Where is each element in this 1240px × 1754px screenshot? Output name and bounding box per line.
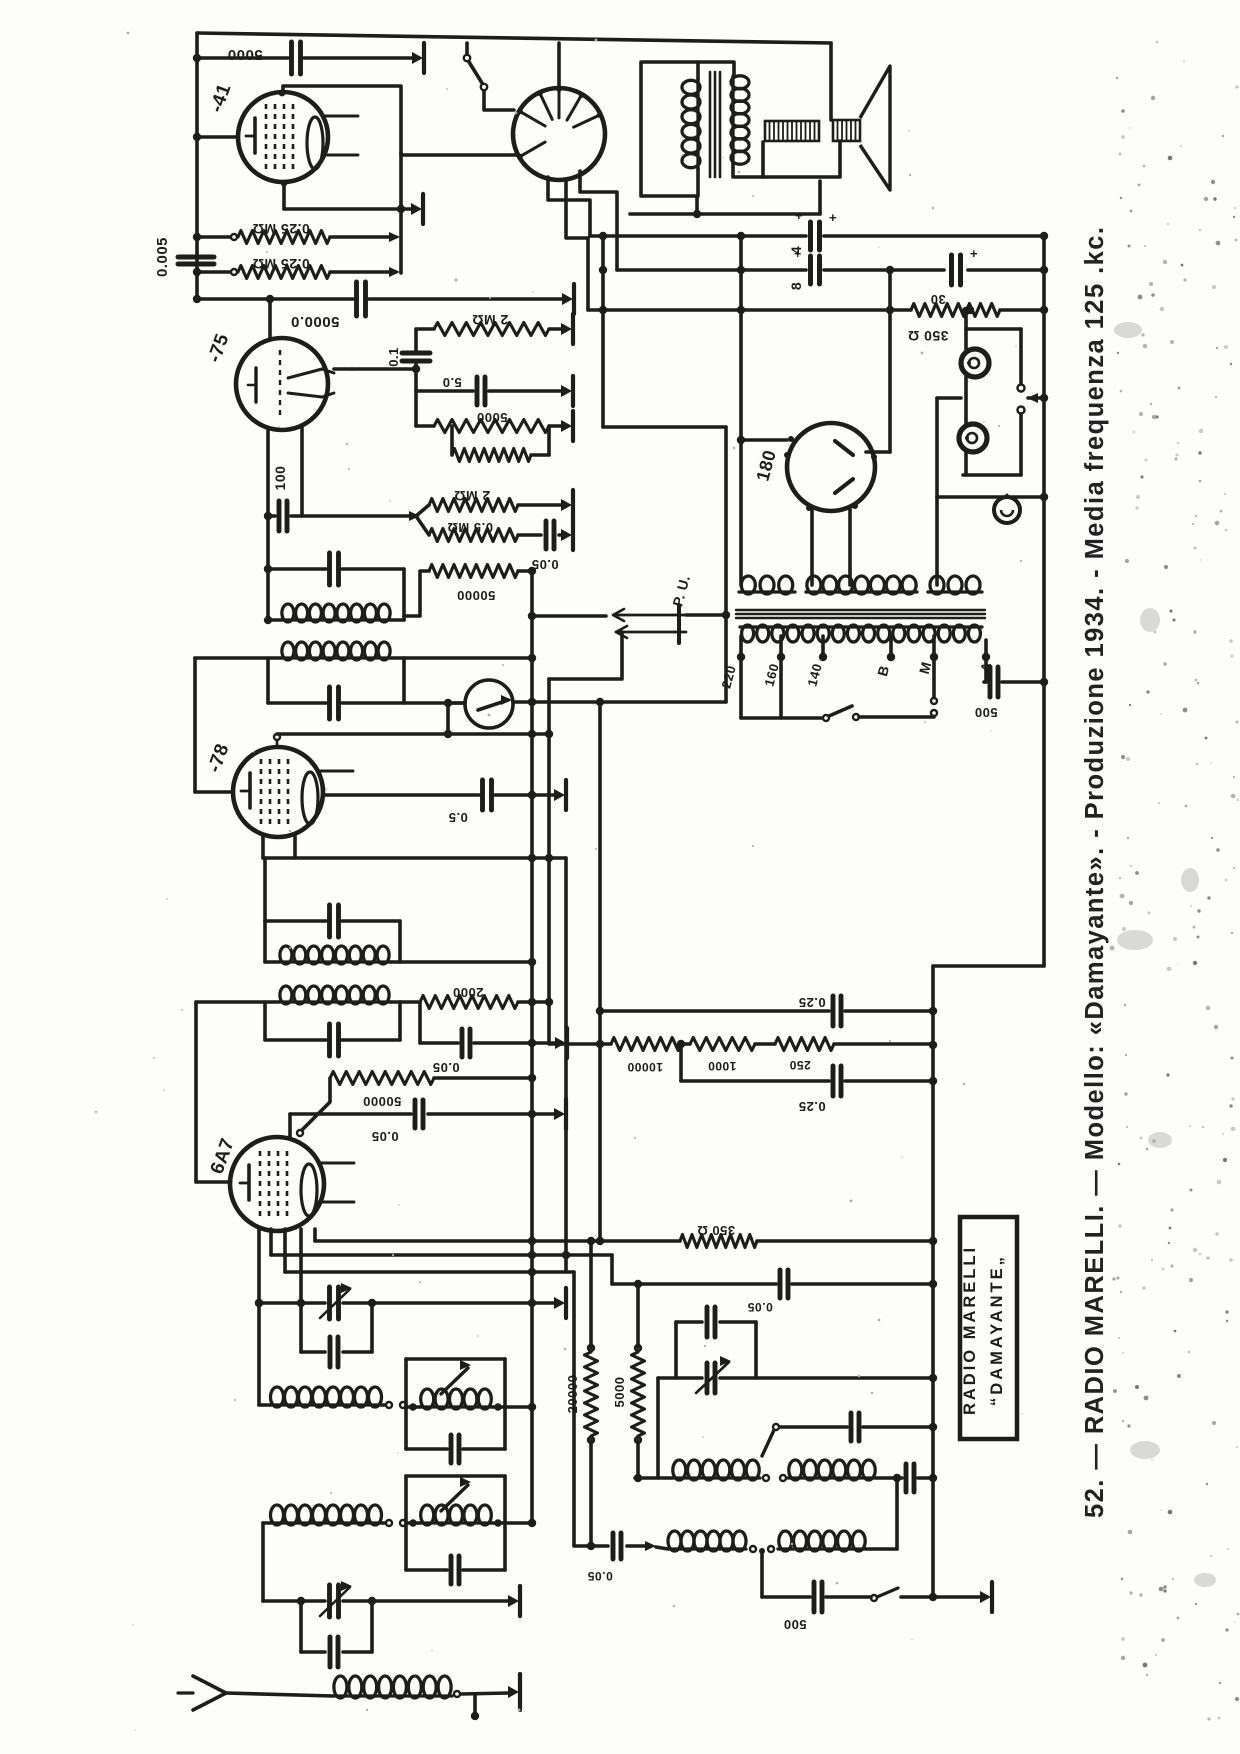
capacitor 500 osc line (762, 1595, 810, 1599)
svg-text:5000: 5000 (477, 410, 508, 425)
ground (0.05 a) (565, 1028, 569, 1058)
ground (coupling line) (422, 43, 426, 73)
svg-text:“DAMAYANTE„: “DAMAYANTE„ (988, 1254, 1006, 1406)
rectifier tube 180 (787, 423, 875, 511)
svg-text:-41: -41 (206, 81, 236, 115)
wire rect plate right (866, 450, 890, 454)
svg-text:RADIO MARELLI: RADIO MARELLI (961, 1245, 979, 1415)
osc bottom switch (871, 1595, 877, 1601)
ground (5.0) (571, 376, 575, 406)
svg-text:350 Ω: 350 Ω (908, 328, 949, 344)
wire 2M vertical (414, 329, 418, 352)
ground (2M avc) (571, 490, 575, 520)
wire row y1081 (681, 1079, 829, 1083)
resistor 2MΩ (plate) (434, 323, 549, 336)
output transformer core (709, 72, 712, 177)
IF T1 primary coil (279, 1000, 390, 1003)
ground (0.5M) (571, 520, 575, 550)
wire padder down (656, 1378, 660, 1478)
wire lamp switch to bus (1028, 396, 1044, 400)
svg-text:0.05: 0.05 (432, 1060, 459, 1075)
osc coil row2 left (668, 1547, 746, 1550)
resistor 5000 vertical (636, 1284, 640, 1348)
resistor 5000 det (434, 420, 549, 433)
wire 2000 down (418, 1002, 422, 1043)
IF T2 primary cap line (268, 701, 326, 705)
wire secondary bottom (733, 142, 763, 177)
resistor 0.25MΩ (lower) (238, 266, 330, 279)
wire grid-leak vertical (399, 153, 403, 273)
svg-text:2 MΩ: 2 MΩ (472, 312, 509, 328)
svg-text:0.5: 0.5 (448, 810, 468, 825)
wire rect filament pins (810, 509, 814, 585)
wire 6A7 pin5 (313, 1229, 317, 1241)
power transformer core (736, 609, 985, 611)
IF T2 secondary sides (266, 569, 270, 620)
resistor 0.25MΩ (upper) (238, 231, 330, 244)
capacitor 0.1 (402, 351, 430, 356)
band box 1 cap line (406, 1447, 447, 1451)
svg-text:5.0: 5.0 (442, 375, 462, 390)
band coil 1 (420, 1405, 492, 1408)
IF T1 secondary side link (263, 858, 267, 921)
wire y858 line (263, 856, 566, 860)
switch (tone/mute) (465, 43, 469, 54)
wire row y1241 (315, 1239, 680, 1243)
wire stub r1 (197, 235, 230, 239)
wire T2 primary to bus (404, 656, 530, 660)
capacitor 0.05 osc (778, 1270, 783, 1298)
resistor 250 (775, 1038, 834, 1051)
svg-text:5000: 5000 (227, 46, 262, 63)
output transformer secondary coil (731, 76, 734, 164)
wire to ground bottom (935, 1595, 982, 1599)
tube -78 (233, 747, 323, 837)
wire grid leak row1 (330, 235, 396, 239)
power transformer secondary 2 (806, 590, 917, 593)
volume potentiometer (465, 680, 513, 728)
speaker field coil (765, 121, 819, 141)
resistor 50000 osc (330, 1072, 434, 1085)
wire pot left (448, 701, 465, 705)
svg-text:-75: -75 (204, 331, 234, 365)
grid cap -78 (274, 734, 280, 740)
IF T2 secondary capacitor (327, 553, 332, 585)
antenna lead (226, 1693, 333, 1696)
wire left bus (195, 33, 199, 300)
ground (0.5) (564, 780, 568, 810)
wire plate -41 to output grid (283, 86, 516, 155)
band box 2 cap line (406, 1568, 447, 1572)
wire -75 plate (268, 299, 272, 338)
capacitor 0.5 (480, 780, 485, 810)
right bus vertical (1042, 234, 1046, 966)
ground (tuning 2) (518, 1586, 522, 1616)
wire grid leak row2 (330, 270, 396, 274)
mains switch (741, 716, 822, 720)
tuning cap 1 variable (327, 1287, 332, 1319)
wire bus x549 (549, 679, 560, 1044)
coupling line 5000 (197, 56, 288, 60)
svg-text:5000.0: 5000.0 (291, 313, 340, 330)
wire -78 plate feed (193, 658, 197, 792)
capacitor 5.0 line (416, 389, 473, 393)
wire rect plate left (741, 438, 787, 442)
svg-text:100: 100 (272, 466, 288, 491)
svg-text:0.005: 0.005 (154, 237, 171, 277)
padder line y1378 (658, 1376, 702, 1380)
wire speaker feed (829, 43, 833, 120)
IF T1 primary cap line (265, 1038, 326, 1042)
osc coil row2 right (778, 1547, 866, 1550)
wire 0.25 link (679, 1044, 683, 1081)
tuning box 1 (299, 1303, 303, 1352)
svg-text:2 MΩ: 2 MΩ (454, 488, 491, 504)
IF T2 primary sides (266, 658, 270, 703)
wire HV vertical x741 (739, 236, 743, 585)
svg-text:M: M (916, 660, 935, 676)
wire bus x532 (530, 571, 534, 1523)
wire P.U. link bottom (549, 632, 622, 679)
antenna earth terminal (473, 1694, 477, 1712)
IF T2 primary coil (281, 656, 391, 659)
wire 0.05b to tube (288, 1114, 292, 1137)
capacitor 0.25 lower (831, 1066, 836, 1096)
wire cathode row (268, 514, 275, 518)
capacitor 5000.0 (354, 282, 359, 316)
svg-text:140: 140 (804, 662, 824, 688)
P.U. feed wire (532, 614, 606, 618)
svg-text:0.25: 0.25 (798, 1099, 825, 1114)
IF T2 secondary coil (281, 618, 391, 621)
wire output cathode step2 (566, 179, 588, 310)
resistor 1000 (690, 1038, 755, 1051)
output transformer primary coil (696, 80, 699, 168)
tuning box 2 (299, 1601, 303, 1652)
svg-text:350 Ω: 350 Ω (697, 1223, 735, 1238)
bus y270 (617, 268, 806, 272)
resistor 2MΩ avc (429, 499, 518, 512)
tuning line y1601 (263, 1599, 325, 1603)
wire -75 cathode pins (266, 428, 270, 569)
osc coil row2 contacts (750, 1546, 756, 1552)
svg-text:+: + (795, 208, 803, 223)
bus y310 with resistor 350 (588, 308, 911, 312)
capacitor 0.05 avc (544, 521, 549, 549)
band capacitor 1 (449, 1435, 454, 1463)
wire 6A7 pin1 (257, 1229, 261, 1405)
wire 6A7 pin3 (283, 1229, 287, 1272)
wire top supply line (197, 33, 831, 43)
svg-text:2000: 2000 (453, 985, 484, 1000)
power transformer secondary 1 (739, 590, 795, 593)
wire row2 tap down (760, 1551, 764, 1597)
wire Y split (416, 505, 429, 516)
svg-text:8: 8 (788, 282, 804, 290)
svg-text:50000: 50000 (457, 588, 496, 603)
wire block2 left (261, 1523, 265, 1601)
tuning cap 2 fixed (328, 1637, 333, 1667)
primary tap B (889, 636, 893, 655)
svg-text:180: 180 (752, 448, 779, 484)
wire row y1284 (612, 1282, 776, 1286)
P.U. terminal 2 (616, 631, 686, 634)
wire y702 link (532, 700, 726, 704)
IF T1 primary sides (263, 1002, 267, 1040)
wire 50000 to grid cap (302, 1078, 330, 1130)
ground (osc bottom) (990, 1582, 994, 1612)
wire row y1011 (600, 1009, 829, 1013)
antenna coil (333, 1694, 452, 1697)
wire bus x566 (564, 858, 568, 1272)
wire jack line (937, 396, 961, 400)
capacitor 0.05 a line (420, 1041, 458, 1045)
svg-text:0.05: 0.05 (747, 1300, 772, 1314)
wire -78 cathode (195, 790, 233, 794)
wire 6A7 plate feed (194, 1002, 198, 1182)
svg-text:+: + (970, 246, 978, 261)
band switch box 2 (404, 1476, 408, 1570)
power transformer primary (740, 625, 982, 628)
capacitor 0.25 upper (831, 996, 836, 1026)
band switch 1 blade (441, 1368, 468, 1394)
padder capacitor variable (705, 1363, 710, 1393)
output transformer frame (641, 62, 734, 214)
wire 5000.0 line (197, 297, 353, 301)
junction dots left bus (193, 54, 201, 62)
electrolytic capacitor 8uF (808, 256, 813, 284)
svg-text:+: + (794, 247, 802, 261)
resistor 2000 (420, 996, 518, 1009)
primary tap 140 (821, 636, 825, 655)
wire 6A7 pin2 (269, 1229, 273, 1255)
electrolytic capacitor 4uF (808, 222, 813, 250)
svg-text:500: 500 (783, 1617, 806, 1632)
capacitor row1 (904, 1464, 909, 1492)
wire below output transformer (630, 212, 820, 216)
ground (5000 det) (571, 411, 575, 441)
wire -78 bottom pins (261, 836, 265, 858)
pilot lamp 2 (959, 424, 987, 452)
IF T1 secondary coil (279, 960, 390, 963)
svg-text:-78: -78 (204, 741, 234, 775)
wire band2 to bus (505, 1521, 529, 1525)
svg-text:0.1: 0.1 (386, 347, 401, 367)
osc coil row1 left (672, 1476, 760, 1479)
capacitor osc 1427 (849, 1413, 854, 1441)
wire pot right (513, 700, 530, 704)
wire bus x600 (598, 702, 602, 1241)
svg-text:0.25 MΩ: 0.25 MΩ (252, 256, 310, 272)
speaker horn (860, 66, 890, 190)
wire T1 sec to bus (400, 960, 530, 964)
resistor 20000 vertical (589, 1241, 593, 1348)
phone jack (994, 497, 1020, 523)
ground (5000.0 line) (572, 284, 576, 314)
wire stub r2 (197, 270, 230, 274)
capacitor 500 (mains) (984, 680, 986, 684)
electrolytic capacitor 30uF (949, 255, 954, 285)
IF T1 secondary capacitor (327, 905, 332, 937)
svg-text:160: 160 (761, 662, 781, 688)
capacitor 0.005 (stub on left bus) (178, 255, 214, 260)
resistor 10000 (611, 1038, 681, 1051)
wire output cathode step1 (548, 177, 590, 236)
wire row y1241 right (757, 1239, 933, 1243)
svg-text:0.05: 0.05 (587, 1569, 612, 1583)
ground (0.05 b) (564, 1099, 568, 1129)
capacitor 0.05 row2 (611, 1533, 616, 1559)
tuning line y1303 (259, 1301, 325, 1305)
osc switch line y1427 (773, 1424, 779, 1430)
ground (2M plate) (571, 314, 575, 344)
padder capacitor fixed (705, 1307, 710, 1337)
svg-text:250: 250 (789, 1058, 811, 1072)
padder trimmer box (674, 1322, 678, 1378)
wire B+ branch (601, 236, 605, 427)
tuning cap 2 variable (327, 1585, 332, 1617)
ground (tuning 1) (564, 1288, 568, 1318)
pilot lamp 1 (961, 349, 989, 377)
antenna symbol (193, 1676, 226, 1693)
scan noise (1151, 293, 1155, 297)
pilot lamp branch (964, 311, 968, 329)
resistor 50000 det (429, 565, 518, 578)
P.U. bar (677, 605, 681, 643)
svg-text:50000: 50000 (363, 1094, 402, 1109)
svg-text:0.25: 0.25 (798, 995, 825, 1010)
wire row1 to row2 (895, 1478, 899, 1549)
svg-text:5000: 5000 (612, 1377, 627, 1408)
svg-text:0.25 MΩ: 0.25 MΩ (252, 221, 310, 237)
svg-text:0.05: 0.05 (371, 1129, 398, 1144)
svg-text:B: B (874, 664, 892, 678)
tube -41 (238, 92, 328, 182)
resistor 350 osc (680, 1235, 757, 1248)
speaker voice coil (833, 120, 860, 141)
IF T2 primary capacitor (327, 687, 332, 719)
resistor aux det (452, 449, 531, 462)
name plate box (960, 1217, 1017, 1439)
tube -75 (236, 338, 328, 430)
svg-text:+: + (829, 210, 837, 225)
svg-text:0.5 MΩ: 0.5 MΩ (447, 520, 493, 535)
wire plate output tube (557, 43, 561, 88)
band coil 2 (420, 1521, 492, 1524)
wire -75 grid stub (334, 367, 352, 371)
svg-text:10000: 10000 (627, 1060, 663, 1074)
wire output screen step3 (580, 171, 617, 270)
wire grid line -78 (277, 732, 547, 736)
power transformer secondary 3 (928, 590, 982, 593)
output tube (513, 88, 605, 180)
antenna coil secondary (270, 1403, 382, 1406)
primary tap 160 (779, 636, 783, 655)
wire row y1272 (285, 1270, 574, 1274)
svg-text:52. — RADIO MARELLI. — Mod: 52. — RADIO MARELLI. — Modello: «Damayan… (1081, 226, 1109, 1518)
wire row y1044 (560, 1042, 611, 1046)
fuse contacts M (931, 698, 937, 704)
svg-text:P. U.: P. U. (669, 573, 693, 608)
osc coil row1 right (788, 1476, 876, 1479)
band capacitor 2 (449, 1556, 454, 1584)
svg-text:500: 500 (974, 705, 997, 720)
capacitor 100 (277, 501, 282, 531)
svg-text:1000: 1000 (708, 1059, 737, 1073)
capacitor 0.05 a (460, 1029, 465, 1057)
resistor 0.5MΩ (429, 529, 518, 542)
IF T1 secondary cap line (265, 919, 326, 923)
capacitor 5.0 (475, 377, 480, 405)
primary tap M (932, 636, 936, 655)
wire cathode -41 (197, 135, 238, 139)
IF T1 primary capacitor (327, 1024, 332, 1056)
osc ant coil (270, 1521, 382, 1524)
IF T2 secondary cap line (268, 567, 326, 571)
osc switch blade (762, 1430, 774, 1456)
capacitor 5000 (289, 42, 294, 74)
wire row y1255 (271, 1253, 612, 1257)
wire band1 to bus (505, 1405, 529, 1409)
wire 6A7 pin4 (299, 1229, 303, 1303)
capacitor 500 osc (812, 1582, 817, 1612)
ground (-41 cathode) (421, 194, 425, 224)
IF T1 secondary sides (263, 921, 267, 962)
capacitor 0.5 line (323, 793, 479, 797)
wire -41 cathode to ground (282, 182, 286, 209)
primary tap A (984, 640, 988, 655)
capacitor 0.05 b (413, 1100, 418, 1128)
svg-text:220: 220 (718, 664, 738, 690)
ground (antenna) (518, 1674, 522, 1710)
wire P.U. link top (686, 613, 726, 617)
capacitor 0.05 b line (290, 1112, 411, 1116)
tube 6A7 (230, 1137, 324, 1231)
P.U. terminal 1 (614, 614, 686, 617)
band switch 2 blade (441, 1485, 468, 1511)
tuning cap 1 fixed (328, 1337, 333, 1367)
primary tap 220 (739, 636, 743, 655)
band switch box 1 (404, 1359, 408, 1449)
right bus dots (929, 1007, 937, 1015)
wire row2 cap line (574, 1544, 608, 1548)
resistor 350Ω (911, 304, 1000, 317)
svg-text:20000: 20000 (565, 1375, 580, 1414)
osc coil row1 contacts (763, 1475, 769, 1481)
wire 50000 left link (404, 571, 429, 616)
bus B+ y236 (590, 234, 806, 238)
